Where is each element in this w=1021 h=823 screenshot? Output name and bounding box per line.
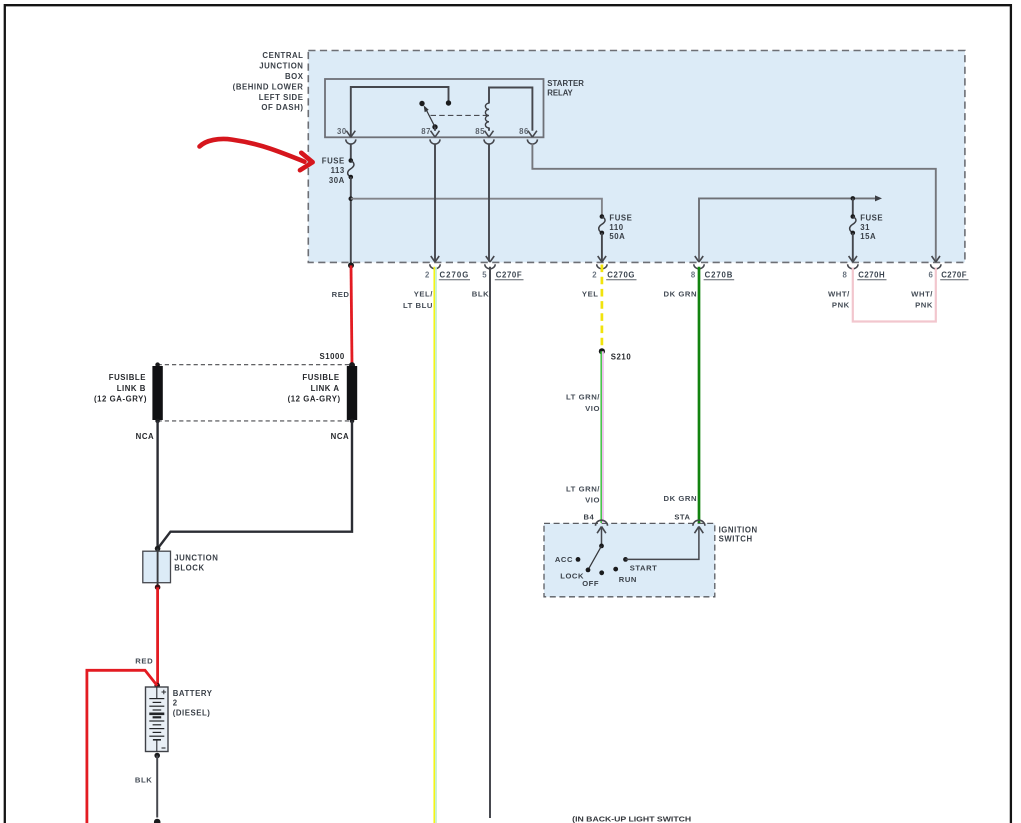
svg-text:2: 2 [173, 699, 178, 708]
ACC position dot [576, 557, 581, 562]
svg-text:(12 GA-GRY): (12 GA-GRY) [94, 395, 147, 404]
pin 87 exit chevron [431, 131, 440, 137]
wire DK GRN from C270B [698, 267, 701, 523]
svg-text:BLK: BLK [135, 776, 152, 785]
battery plus terminal stub [156, 687, 158, 699]
bus wire from fuse113 junction to fuse 110 branch [351, 199, 602, 217]
exit arc C270G pin2 (fuse110) [597, 264, 607, 269]
svg-text:2: 2 [425, 271, 430, 280]
svg-text:OFF: OFF [582, 579, 599, 588]
relay pin 85 wire below coil [488, 128, 490, 131]
central junction box (dashed enclosure) [308, 51, 965, 263]
svg-text:YEL: YEL [582, 290, 599, 299]
wire WHT/PNK loop C270H to C270F [853, 268, 936, 322]
junction dot at fuse 31 [851, 196, 856, 201]
svg-text:CENTRAL: CENTRAL [262, 51, 303, 60]
wire BLK from C270F pin5 [489, 267, 491, 818]
fuse F110 element [599, 217, 605, 233]
wire NCA from link B [156, 421, 158, 549]
dashed tie links bottom [158, 420, 352, 422]
exit arc C270F pin6 [931, 264, 941, 269]
relay movable arm pivot dot [432, 124, 437, 129]
svg-text:15A: 15A [860, 232, 876, 241]
battery B2 component [146, 687, 169, 752]
svg-text:8: 8 [842, 271, 847, 280]
svg-text:B4: B4 [583, 513, 594, 522]
red annotation arrow [200, 139, 305, 162]
wire NCA from link A [158, 421, 352, 549]
fusible link B top dot [155, 362, 160, 367]
svg-text:PNK: PNK [915, 300, 933, 309]
svg-text:87: 87 [421, 127, 431, 136]
pin 86 exit chevron [528, 131, 537, 137]
pin 30 exit chevron [346, 131, 355, 137]
svg-text:2: 2 [592, 271, 597, 280]
svg-text:LT BLU: LT BLU [403, 301, 433, 310]
fuse 110 top dot [600, 214, 605, 219]
battery minus sign [162, 747, 166, 749]
svg-text:C270F: C270F [496, 271, 523, 280]
wire YEL/LT BLU stripe light blue [435, 267, 437, 823]
pin 85 exit chevron [485, 131, 494, 137]
svg-text:LOCK: LOCK [560, 571, 584, 580]
junction node above junction block [155, 546, 161, 552]
pin 86 connector arc [527, 139, 537, 144]
svg-text:JUNCTION: JUNCTION [259, 62, 303, 71]
wire pin85 to connector C270F [488, 144, 490, 262]
splice S210 dot [599, 348, 605, 354]
exit chevron C270F pin5 [486, 256, 494, 262]
fuse F113 element [348, 161, 354, 178]
ignition switch entry chevron STA [695, 527, 704, 534]
battery plus sign [162, 690, 167, 695]
RUN position dot [613, 567, 618, 572]
wire RED junction block to battery [156, 587, 159, 685]
svg-text:C270G: C270G [440, 271, 470, 280]
wire fuse113 to junction [350, 177, 352, 265]
svg-text:8: 8 [691, 271, 696, 280]
svg-text:S1000: S1000 [320, 352, 345, 361]
exit chevron C270G pin2 (87) [431, 256, 439, 262]
relay mechanical link (dashed) [431, 114, 488, 116]
svg-text:BOX: BOX [285, 72, 304, 81]
wire BLK battery to ground point [156, 756, 158, 818]
bus wire to fuse 31 with arrow [699, 198, 877, 261]
svg-text:STARTER: STARTER [547, 79, 584, 88]
svg-text:5: 5 [482, 271, 487, 280]
svg-text:START: START [630, 564, 658, 573]
relay switch arm [425, 107, 435, 127]
svg-text:113: 113 [331, 166, 345, 175]
svg-text:C270B: C270B [705, 271, 734, 280]
svg-text:OF DASH): OF DASH) [261, 103, 303, 112]
splice S1000 dot [349, 362, 355, 368]
svg-text:C270H: C270H [858, 271, 885, 280]
svg-text:RELAY: RELAY [547, 88, 573, 97]
wire fuse31 to connector C270H [852, 233, 854, 262]
exit arc C270B pin8 [694, 264, 704, 269]
node dot at page bottom on BLK wire [154, 819, 161, 823]
exit chevron C270G pin2 (fuse110) [598, 256, 606, 262]
fuse 110 bottom dot [600, 231, 605, 236]
svg-text:(IN BACK-UP LIGHT SWITCH: (IN BACK-UP LIGHT SWITCH [572, 814, 691, 823]
svg-text:WHT/: WHT/ [911, 290, 933, 299]
battery minus stub [156, 740, 158, 752]
svg-text:6: 6 [928, 271, 933, 280]
fusible link A bottom dot [350, 419, 355, 424]
wire LT GRN/VIO stripe green [600, 351, 602, 523]
svg-text:IGNITION: IGNITION [719, 525, 758, 534]
svg-text:86: 86 [519, 127, 529, 136]
svg-text:YEL/: YEL/ [414, 290, 434, 299]
wire YEL/LT BLU stripe yellow [433, 267, 435, 823]
ignition inner wire START to STA [626, 527, 699, 560]
battery bottom node dot [154, 753, 160, 759]
exit chevron C270F pin6 [932, 256, 940, 262]
fuse 31 top dot [851, 214, 856, 219]
svg-text:ACC: ACC [555, 555, 573, 564]
wire through junction block [157, 549, 159, 588]
svg-text:(12 GA-GRY): (12 GA-GRY) [288, 395, 341, 404]
svg-text:FUSE: FUSE [609, 214, 632, 223]
svg-text:LEFT SIDE: LEFT SIDE [259, 93, 304, 102]
svg-text:85: 85 [475, 127, 485, 136]
relay pin 87 wire [434, 127, 436, 131]
svg-text:(BEHIND LOWER: (BEHIND LOWER [233, 82, 304, 91]
svg-text:SWITCH: SWITCH [719, 535, 753, 544]
ignition switch box (dashed enclosure) [544, 523, 715, 596]
exit chevron C270B pin8 [695, 256, 703, 262]
red annotation arrowhead [300, 153, 313, 170]
svg-text:DK GRN: DK GRN [664, 494, 698, 503]
svg-text:31: 31 [860, 223, 870, 232]
wire RED branch to page bottom [87, 670, 157, 823]
svg-text:30: 30 [337, 127, 347, 136]
fusible link B element [152, 366, 162, 420]
pin 85 connector arc [484, 139, 494, 144]
svg-text:NCA: NCA [136, 432, 155, 441]
svg-text:LT GRN/: LT GRN/ [566, 392, 600, 401]
exit arc C270G pin2 (87) [430, 264, 440, 269]
ignition switch entry arc STA [693, 520, 705, 526]
svg-text:50A: 50A [609, 232, 625, 241]
svg-text:BLOCK: BLOCK [174, 564, 204, 573]
svg-text:RUN: RUN [619, 575, 637, 584]
svg-text:BATTERY: BATTERY [173, 689, 213, 698]
svg-text:DK GRN: DK GRN [664, 290, 698, 299]
wire LT GRN/VIO stripe violet [602, 351, 604, 523]
START position dot [623, 557, 628, 562]
fusible link A element [347, 366, 357, 420]
arrowhead on fuse31 bus [875, 195, 882, 201]
svg-text:FUSIBLE: FUSIBLE [109, 373, 146, 382]
svg-text:VIO: VIO [585, 495, 600, 504]
svg-text:FUSE: FUSE [322, 156, 345, 165]
wire pin86 to connector C270F pin6 [532, 144, 935, 262]
starter relay K1 outline [325, 79, 544, 137]
svg-text:JUNCTION: JUNCTION [174, 553, 218, 562]
svg-text:LINK A: LINK A [311, 384, 340, 393]
fuse 113 top dot [349, 158, 354, 163]
fusible link B bottom dot [155, 419, 160, 424]
svg-text:LINK B: LINK B [117, 384, 146, 393]
wire to fuse 31 [852, 198, 854, 216]
pin 87 connector arc [430, 139, 440, 144]
svg-text:30A: 30A [329, 176, 345, 185]
svg-text:RED: RED [332, 290, 350, 299]
svg-text:WHT/: WHT/ [828, 290, 850, 299]
LOCK position dot [586, 568, 591, 573]
svg-text:RED: RED [135, 656, 153, 665]
relay internal wire: pin 30 to fixed contact [351, 87, 449, 137]
junction node dot below fuse 113 [349, 196, 354, 201]
wire pin30 to fuse 113 [350, 144, 352, 161]
wire RED from CJB to S1000 [351, 265, 352, 365]
dashed tie S1000 top [158, 364, 352, 366]
wire pin87 to connector C270G [434, 144, 436, 262]
exit arc C270F pin5 [485, 264, 495, 269]
svg-text:C270G: C270G [607, 271, 635, 280]
junction block bottom dot [155, 584, 161, 590]
junction block component [143, 551, 171, 583]
fuse 31 bottom dot [851, 231, 856, 236]
svg-text:PNK: PNK [832, 300, 850, 309]
svg-text:VIO: VIO [585, 404, 600, 413]
svg-text:C270F: C270F [941, 271, 967, 280]
wire fuse110 to connector C270G [601, 233, 603, 262]
svg-text:FUSIBLE: FUSIBLE [302, 373, 339, 382]
ignition switch entry chevron B4 [597, 527, 606, 534]
node dot at CJB bottom on red feed [348, 262, 354, 268]
pin 30 connector arc [346, 139, 356, 144]
battery top node dot [154, 683, 160, 689]
svg-text:110: 110 [609, 223, 623, 232]
exit arc C270H pin8 [848, 264, 858, 269]
ignition arm pivot dot [599, 544, 604, 549]
svg-text:S210: S210 [611, 352, 632, 361]
fuse 113 bottom dot [349, 175, 354, 180]
svg-text:LT GRN/: LT GRN/ [566, 485, 600, 494]
relay arm arrowhead [424, 105, 429, 112]
OFF position dot [599, 570, 604, 575]
svg-text:(DIESEL): (DIESEL) [173, 709, 211, 718]
ignition switch arm to LOCK [588, 546, 602, 570]
svg-text:BLK: BLK [472, 290, 489, 299]
relay coil [485, 103, 489, 128]
svg-text:FUSE: FUSE [860, 214, 883, 223]
relay fixed contact dot right [446, 100, 451, 105]
exit chevron C270H pin8 [849, 256, 857, 262]
ignition inner wire B4 [601, 527, 603, 546]
relay fixed contact dot left [419, 101, 424, 106]
battery plates [149, 699, 164, 740]
fuse F31 element [850, 217, 856, 233]
relay coil top wire to pin 86 [489, 88, 532, 131]
wire YEL dashed from C270G to S210 [601, 265, 604, 352]
svg-text:STA: STA [674, 512, 690, 521]
ignition switch entry arc B4 [596, 520, 608, 526]
svg-text:NCA: NCA [331, 432, 350, 441]
